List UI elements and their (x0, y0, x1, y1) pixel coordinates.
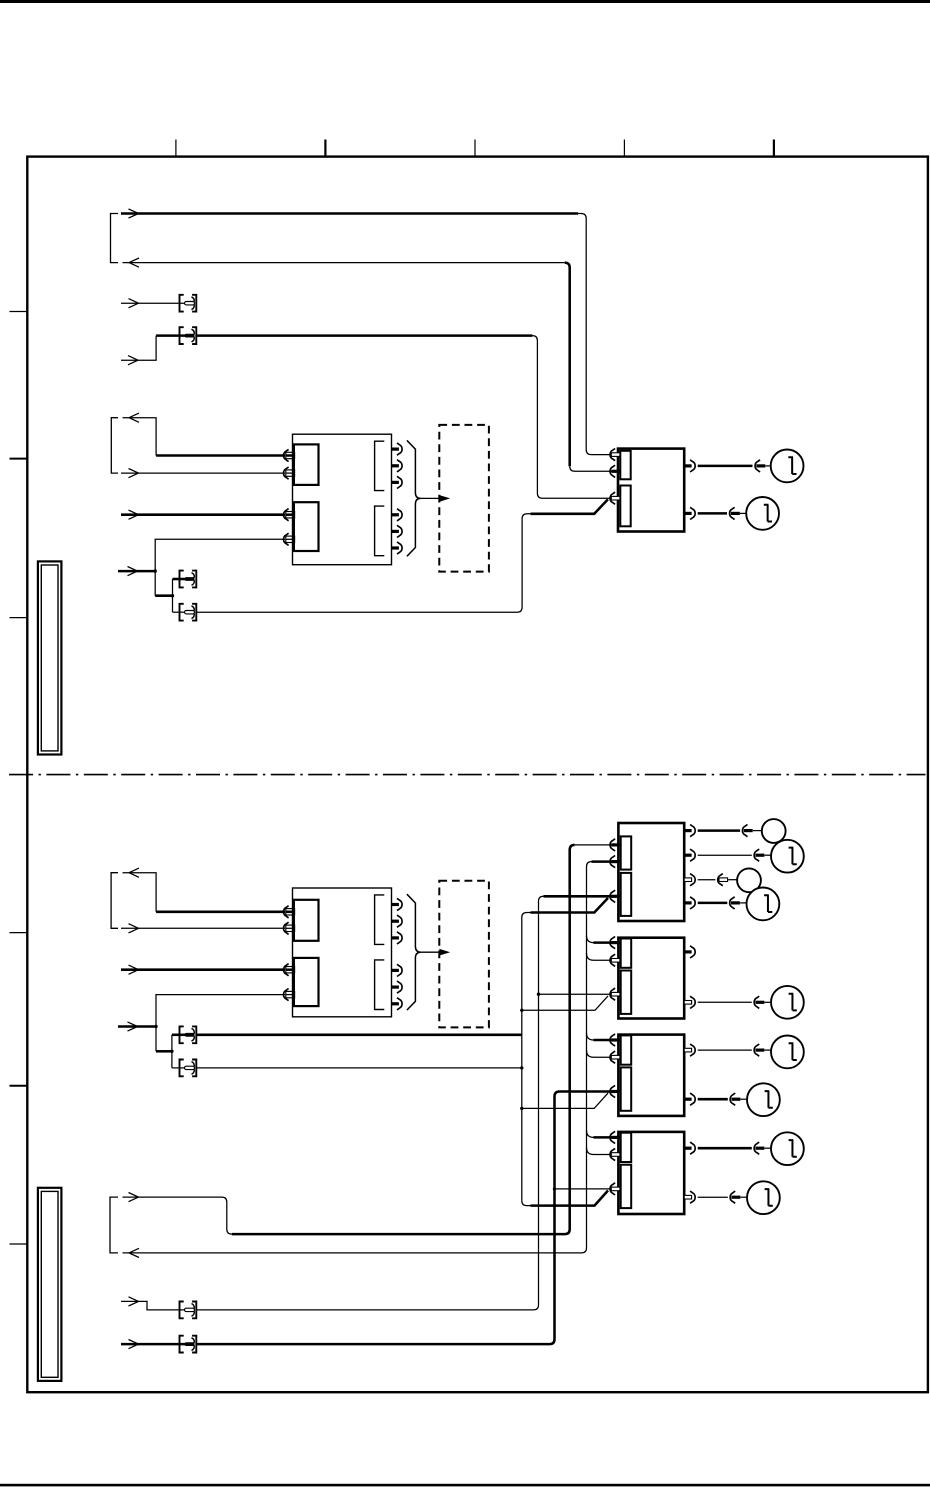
R2 output pin 2 (392, 920, 399, 923)
wire W9 (relay R2 pin 4) (156, 995, 285, 1052)
fold centre line (dash-dot) (9, 774, 926, 776)
C4 input pin 1 (610, 1034, 615, 1046)
R2 output pin 1 (392, 903, 399, 906)
lamp at (787.4,1148.7) (771, 1132, 804, 1165)
C5 connector tab 2 (621, 1165, 632, 1208)
bus V2 branch to unit C3 pin 3 (537, 993, 540, 996)
lamp at (787.4,856.2) (771, 840, 804, 873)
wire branch to connectors J3/J4 (155, 594, 172, 597)
wire J2 long run to unit C1 pin 3 (196, 334, 533, 337)
R2 output bracket G2 (375, 960, 385, 1010)
R1 output bracket G2 (375, 506, 385, 556)
wire W5 input spur (118, 570, 155, 573)
bus V4 feed wire (tail bus, thick) (123, 1197, 232, 1234)
connector J4 (180, 604, 197, 621)
C4 output pin at y=1050.1 (684, 1048, 691, 1052)
R2 output pin 4 (392, 969, 399, 972)
wire T2 riser (thick) down to unit C1 pin 2 (565, 263, 570, 467)
connector J3 (180, 571, 197, 588)
wire T2 return (thin) (123, 262, 565, 264)
C4 connector tab 1 (621, 1035, 632, 1064)
lamp at (763.4,1197.7) (747, 1181, 780, 1214)
bracket node B1 (top-left loop) (111, 214, 119, 263)
C2 input pin 2 (610, 856, 615, 868)
connector J7 (180, 1302, 197, 1319)
light unit C5 (618, 1132, 684, 1214)
connector J6 (180, 1060, 197, 1077)
wire to connector J2 (stepped) (121, 336, 156, 361)
connector J5 (180, 1026, 197, 1043)
wire W2 in (to relay R1 pin 2) (121, 472, 285, 474)
bus V2 top drop to unit C2 pin 3 (544, 895, 612, 898)
C1 pin 3 input (610, 492, 615, 504)
connector J1 (180, 295, 197, 312)
C5 connector tab 1 (621, 1133, 632, 1162)
wire W6 out (relay R2 pin 1) (123, 873, 157, 912)
harness group H1 (dashed) (439, 425, 489, 572)
C2 connector tab 1 (621, 836, 632, 869)
connector J8 (180, 1336, 197, 1353)
C3 connector tab 1 (621, 939, 632, 968)
wiring-group brace S2 (407, 894, 421, 1010)
lamp L1 (771, 450, 804, 483)
C5 output pin at y=1148.2 (684, 1147, 691, 1150)
C3 output pin at y=951.9 (684, 950, 691, 953)
wire W7 in (relay R2 pin 2) (121, 927, 285, 929)
lamp L2 (746, 497, 779, 530)
C4 input pin 2 (610, 1051, 615, 1063)
wire W1 out (to relay R1 pin 1) (123, 418, 157, 456)
lamp at (787.4,1002.3) (771, 986, 804, 1019)
C1 connector tab (620, 451, 630, 480)
wire W3 (to relay R1 pin 3) (121, 513, 285, 516)
wire branch to connectors J5/J6 (156, 1050, 172, 1053)
C3 input pin 1 (610, 937, 615, 949)
C5 output pin at y=1197.2 (684, 1195, 691, 1199)
connector J8 wire (121, 1343, 185, 1346)
R1 output pin 1 (392, 448, 399, 451)
C3 output pin at y=1002.3 (684, 1001, 691, 1005)
bus V5 return wire (thin) (123, 862, 592, 1253)
bus branch to light unit pin at y=1137.4 (587, 1130, 594, 1137)
wire T1 riser down to unit C1 pin 1 (578, 214, 612, 455)
bracket node B4 (bottom-left loop) (110, 1197, 118, 1253)
C1 pin 1 input (610, 449, 615, 461)
lamp at (762.9,903.9) (747, 888, 780, 921)
R2 connector tab T1 (294, 900, 319, 941)
C1 lamp feed wire 2 (684, 512, 691, 515)
V1 branch to unit C4 pin 3 (520, 1107, 523, 1110)
C5 input pin 1 (610, 1131, 615, 1143)
C2 input pin 3 (610, 890, 615, 902)
C2 output pin at y=902.9 (684, 901, 691, 904)
wire J5 feed to slant bus V1 (196, 1034, 522, 1037)
junction N4 (170, 1050, 173, 1053)
C1 pin 2 input (610, 465, 615, 477)
junction N5 (520, 1066, 523, 1069)
V1 branch to unit C3 pin 3 (520, 1009, 523, 1012)
bus branch to light unit pin at y=1057.2 (587, 1050, 594, 1057)
R2 output pin 6 (392, 1002, 399, 1005)
junction N3 (154, 1025, 157, 1028)
R1 output bracket G1 (375, 441, 385, 490)
V1 bottom branch to unit C5 pin 3 (522, 1201, 531, 1206)
C3 connector tab 2 (621, 971, 632, 1014)
light unit C2 (618, 823, 684, 921)
upper margin cartouche (38, 561, 62, 754)
lamp at (787.4,1051.9) (771, 1036, 804, 1069)
bracket node B2 (relay R1 loop) (111, 418, 118, 473)
wire W4 (to relay R1 pin 4) (155, 539, 285, 595)
junction N1 (154, 569, 157, 572)
R2 output pin 3 (392, 936, 399, 939)
top title bar (0, 0, 930, 3)
harness group H2 (dashed) (439, 881, 489, 1028)
wiring-group brace S1 (407, 440, 421, 556)
wire J4 branch riser to unit C1 pin 3 (joined) (196, 514, 531, 612)
C1 connector tab 2 (620, 486, 630, 527)
wire to connector J1 (121, 302, 185, 304)
light unit C3 (618, 938, 684, 1019)
C3 input pin 3 (610, 988, 615, 1000)
R1 output pin 4 (392, 513, 399, 516)
lamp at (749.0,880.3) (737, 868, 761, 892)
C5 input pin 3 (610, 1183, 615, 1195)
R2 output pin 5 (392, 986, 399, 989)
lower margin cartouche (38, 1188, 62, 1381)
C2 input pin 1 (610, 839, 615, 851)
bus branch to light unit pin at y=1154.5 (587, 1148, 594, 1155)
R1 output pin 3 (392, 481, 399, 484)
slant bus V1 (common feed) (522, 913, 531, 1201)
bus V2 riser from J7 (196, 896, 544, 1310)
R1 connector tab T1 (294, 444, 319, 485)
bracket node B3 (relay R2 loop) (111, 873, 118, 929)
relay block R2 (lower junction unit) (293, 888, 392, 1017)
R1 output pin 6 (392, 546, 399, 549)
R1 output pin 2 (392, 464, 399, 467)
lamp at (763.4,1099.7) (747, 1083, 780, 1116)
bus V4 drop to unit C2 pin 1 (575, 844, 612, 846)
C2 output pin at y=879.7 (684, 878, 691, 882)
C2 output pin at y=830.6 (684, 829, 691, 832)
connector J2 (180, 327, 197, 344)
wire T1 feed (thick) to vertical riser (121, 212, 578, 215)
bus V3 branch to unit C5 pin 3 (553, 1187, 556, 1190)
bus branch to light unit pin at y=1040.0 (587, 1033, 594, 1040)
bus V3 riser from J8 (196, 1092, 612, 1345)
relay block R1 (upper junction unit) (293, 434, 392, 565)
C4 input pin 3 (610, 1085, 615, 1097)
junction N2 (171, 594, 174, 597)
R2 output bracket G1 (375, 895, 385, 945)
C3 input pin 2 (610, 954, 615, 966)
left registration ticks (10, 311, 28, 313)
wire W8 (relay R2 pin 3) (121, 968, 285, 971)
bus V5 drop to unit C2 pin 2 (592, 860, 612, 863)
lamp at (773.7,831.0) (762, 819, 786, 843)
C2 connector tab 2 (621, 873, 632, 916)
light unit C4 (618, 1035, 684, 1116)
bottom rule (0, 1484, 930, 1487)
brace arrow to harness H1 (421, 497, 441, 499)
C1 lamp feed wire 1 (684, 464, 691, 467)
C5 input pin 2 (610, 1148, 615, 1160)
R2 connector tab T2 (294, 958, 319, 1006)
C4 output pin at y=1099.2 (684, 1098, 691, 1101)
R1 connector tab T2 (294, 502, 319, 551)
bus branch to light unit pin at y=942.6 (587, 936, 594, 943)
brace arrow to harness H2 (421, 951, 441, 953)
wire J6 feed to slant bus V1 (196, 1067, 522, 1069)
R1 output pin 5 (392, 530, 399, 533)
top registration ticks (175, 140, 177, 157)
light unit C1 (front combination) (618, 449, 684, 532)
wire W10 input spur (118, 1025, 156, 1028)
connector J7 wire (stepped) (121, 1301, 185, 1310)
C4 connector tab 2 (621, 1067, 632, 1110)
C2 output pin at y=855.2 (684, 854, 691, 857)
bus branch to light unit pin at y=960.3 (587, 953, 594, 960)
